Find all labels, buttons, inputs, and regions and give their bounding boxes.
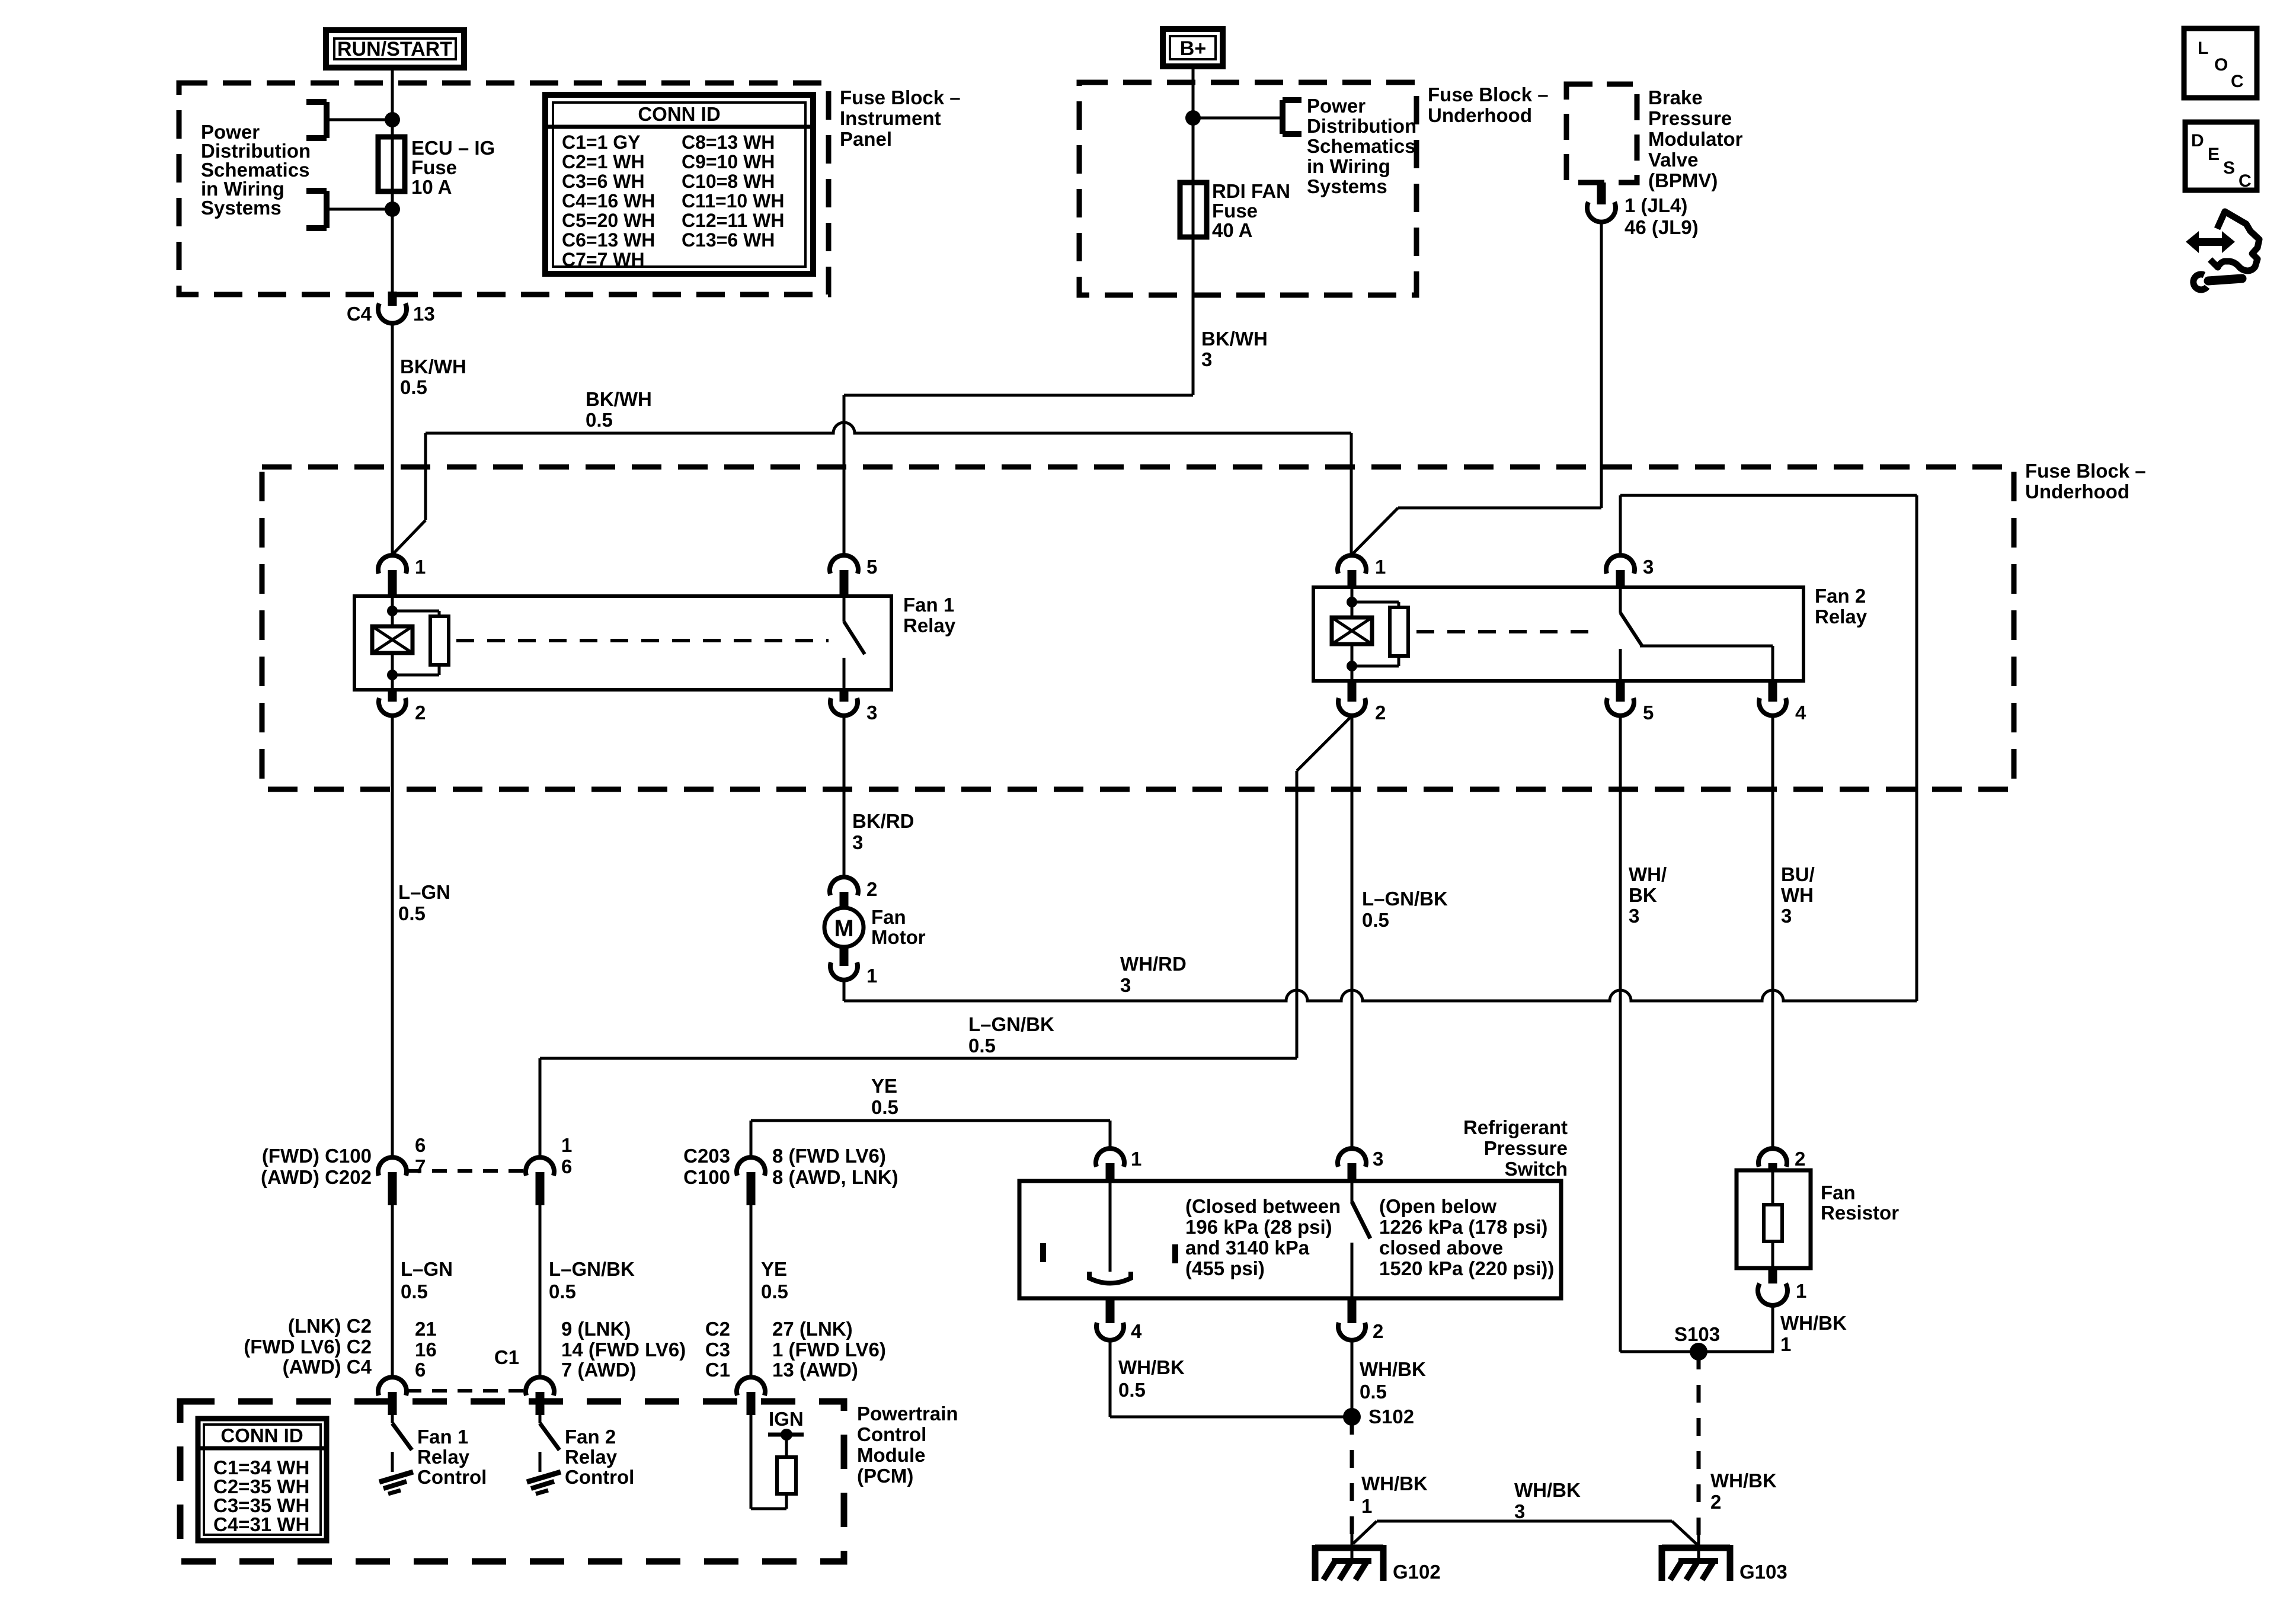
svg-text:2: 2 [1710, 1491, 1721, 1513]
relay actuation dashed link Fan1 [456, 639, 829, 642]
pressure switch low-side contact [1109, 1181, 1112, 1272]
svg-text:3: 3 [1781, 905, 1792, 927]
wire BPMV down to Fan 2 relay pin 1 [1600, 221, 1603, 508]
splice S103 [1690, 1343, 1707, 1361]
connector Fan2 pin 3 [1606, 555, 1635, 574]
connector Fan2 pin 1 [1338, 555, 1366, 574]
svg-text:196 kPa (28 psi): 196 kPa (28 psi) [1185, 1216, 1332, 1238]
svg-text:0.5: 0.5 [398, 902, 426, 924]
svg-text:3: 3 [1373, 1148, 1383, 1170]
relay suppression resistor Fan2 [1352, 601, 1399, 604]
svg-text:Relay: Relay [1815, 606, 1868, 628]
connector Fan1 pin 3 [840, 690, 849, 702]
svg-text:E: E [2208, 145, 2220, 164]
svg-text:C1: C1 [494, 1346, 519, 1368]
svg-text:BK/WH: BK/WH [400, 356, 466, 377]
fuse block - underhood dashed box (main) [262, 467, 2014, 789]
powertrain control module PCM dashed box [180, 1401, 844, 1561]
svg-text:Panel: Panel [840, 128, 892, 150]
svg-text:C6=13 WH: C6=13 WH [562, 229, 655, 251]
svg-text:C3=6 WH: C3=6 WH [562, 171, 645, 192]
svg-text:0.5: 0.5 [549, 1281, 576, 1302]
svg-text:Schematics: Schematics [1307, 135, 1415, 157]
svg-text:WH/: WH/ [1629, 863, 1667, 885]
svg-text:C11=10 WH: C11=10 WH [682, 190, 784, 212]
connector C100/C202 pins 6/7 [378, 1157, 407, 1176]
svg-text:Systems: Systems [201, 197, 282, 219]
svg-text:14 (FWD LV6): 14 (FWD LV6) [561, 1339, 686, 1361]
svg-text:1: 1 [866, 965, 877, 987]
svg-text:1: 1 [1780, 1333, 1791, 1355]
svg-text:BK/WH: BK/WH [1201, 328, 1268, 350]
wire RUN/START to ECU-IG fuse [391, 71, 394, 137]
svg-text:in Wiring: in Wiring [1307, 155, 1390, 177]
svg-text:Fuse: Fuse [1212, 200, 1258, 222]
wire S102 to G102 dashed WH/BK 1 [1350, 1417, 1354, 1535]
svg-text:C2=1 WH: C2=1 WH [562, 151, 645, 172]
svg-text:Brake: Brake [1648, 87, 1703, 108]
svg-text:0.5: 0.5 [968, 1035, 996, 1057]
svg-text:WH/BK: WH/BK [1361, 1473, 1428, 1494]
svg-text:3: 3 [866, 702, 877, 724]
svg-text:10 A: 10 A [411, 176, 452, 198]
power node B+ [1163, 29, 1223, 66]
svg-text:0.5: 0.5 [401, 1281, 428, 1302]
svg-text:Fuse Block –: Fuse Block – [840, 87, 961, 108]
svg-text:Relay: Relay [903, 614, 956, 636]
wire RDI FAN fuse down BK/WH 3 [1192, 237, 1195, 395]
svg-text:1 (JL4): 1 (JL4) [1625, 194, 1687, 216]
svg-text:(AWD) C202: (AWD) C202 [261, 1166, 372, 1188]
svg-text:Fuse: Fuse [411, 156, 457, 178]
svg-text:4: 4 [1795, 702, 1806, 724]
svg-text:S102: S102 [1368, 1406, 1414, 1427]
relay switch Fan1 [843, 596, 846, 622]
svg-text:Powertrain: Powertrain [857, 1403, 958, 1425]
connector tie dashed [407, 1169, 526, 1173]
connector BPMV pin 1 (JL4) / 46 (JL9) [1597, 183, 1606, 204]
svg-text:3: 3 [1514, 1500, 1525, 1522]
svg-text:Systems: Systems [1307, 175, 1387, 197]
svg-text:C13=6 WH: C13=6 WH [682, 229, 775, 251]
icon LOC box [2184, 28, 2257, 98]
wire BK/WH 0.5 down to Fan 1 relay pin 1 [391, 322, 394, 556]
svg-text:C1: C1 [705, 1359, 730, 1381]
svg-text:C3: C3 [705, 1339, 730, 1361]
ground G102 [1351, 1534, 1354, 1561]
svg-text:G103: G103 [1739, 1561, 1787, 1583]
svg-text:Power: Power [1307, 95, 1366, 117]
connector C4 pin 13 [388, 292, 397, 306]
svg-text:O: O [2214, 55, 2228, 75]
svg-text:CONN ID: CONN ID [638, 103, 720, 125]
svg-text:WH/BK: WH/BK [1780, 1312, 1847, 1334]
svg-text:7 (AWD): 7 (AWD) [561, 1359, 637, 1381]
svg-text:C4: C4 [347, 303, 372, 325]
svg-text:L–GN/BK: L–GN/BK [1362, 888, 1448, 910]
wire bracket to node A [327, 119, 392, 121]
fuse block - underhood dashed box (top) [1079, 82, 1416, 295]
connector pressure switch pin 4 [1106, 1298, 1115, 1323]
svg-text:0.5: 0.5 [400, 376, 427, 398]
wire pin4 WH/BK 0.5 to S102 [1109, 1342, 1112, 1417]
svg-text:(Open below: (Open below [1379, 1195, 1496, 1217]
svg-text:Control: Control [417, 1466, 487, 1488]
svg-text:1 (FWD LV6): 1 (FWD LV6) [772, 1339, 886, 1361]
svg-text:Underhood: Underhood [1428, 104, 1532, 126]
svg-text:L–GN/BK: L–GN/BK [968, 1013, 1054, 1035]
motor M1 Fan Motor [824, 908, 864, 947]
connector C203/C100 pin 8 [737, 1157, 765, 1176]
wire Fan2 pin2 down L-GN/BK 0.5 to pressure switch pin 3 [1351, 716, 1354, 1149]
relay coil Fan1 [391, 596, 394, 626]
svg-text:L–GN: L–GN [398, 881, 450, 903]
svg-text:13 (AWD): 13 (AWD) [772, 1359, 858, 1381]
connector PCM C2/C2/C4 pins 21/16/6 [378, 1377, 407, 1395]
svg-text:and 3140 kPa: and 3140 kPa [1185, 1237, 1310, 1259]
node B junction [385, 201, 400, 217]
svg-text:40 A: 40 A [1212, 219, 1252, 241]
off-page bracket upper left [324, 102, 330, 138]
svg-text:2: 2 [415, 702, 426, 724]
svg-text:C4=16 WH: C4=16 WH [562, 190, 655, 212]
svg-text:CONN ID: CONN ID [220, 1425, 303, 1446]
svg-text:C10=8 WH: C10=8 WH [682, 171, 775, 192]
svg-text:M: M [834, 916, 853, 942]
svg-text:BK/WH: BK/WH [586, 388, 652, 410]
power node RUN/START [326, 30, 464, 68]
svg-text:G102: G102 [1393, 1561, 1441, 1583]
relay actuation dashed link Fan2 [1416, 630, 1600, 633]
svg-text:Fan 1: Fan 1 [903, 594, 954, 616]
svg-text:0.5: 0.5 [871, 1096, 898, 1118]
svg-text:(LNK) C2: (LNK) C2 [288, 1315, 372, 1337]
connector Fan2 pin 2 [1348, 681, 1357, 702]
svg-text:13: 13 [413, 303, 435, 325]
svg-text:3: 3 [1120, 974, 1131, 996]
wire YE to switch pin 1 [1109, 1121, 1112, 1149]
wire fuse to connector C4 [391, 191, 394, 292]
svg-text:Fuse Block –: Fuse Block – [1428, 84, 1549, 105]
wire YE 0.5 vertical [750, 1205, 753, 1378]
svg-text:Refrigerant: Refrigerant [1463, 1116, 1568, 1138]
svg-text:8 (AWD, LNK): 8 (AWD, LNK) [772, 1166, 898, 1188]
svg-text:L: L [2198, 39, 2208, 58]
svg-text:2: 2 [1375, 702, 1386, 724]
svg-text:3: 3 [1629, 905, 1639, 927]
svg-text:4: 4 [1131, 1320, 1142, 1342]
fuse F2 RDI FAN 40 A [1180, 183, 1207, 237]
fuse block - instrument panel dashed box [179, 83, 829, 295]
wire bracket to node B [327, 208, 392, 211]
svg-text:RUN/START: RUN/START [337, 38, 452, 60]
svg-text:C12=11 WH: C12=11 WH [682, 210, 784, 231]
svg-text:Fan: Fan [1821, 1182, 1856, 1204]
node C junction [1185, 110, 1201, 126]
wire WH/BK 1 resistor to S103 [1771, 1304, 1774, 1352]
relay switch Fan2 [1619, 587, 1622, 613]
svg-text:WH/BK: WH/BK [1514, 1479, 1581, 1501]
svg-text:6: 6 [415, 1134, 426, 1156]
svg-text:(AWD) C4: (AWD) C4 [283, 1356, 372, 1378]
svg-text:5: 5 [866, 556, 877, 578]
splice S102 [1343, 1408, 1361, 1426]
svg-text:3: 3 [1643, 556, 1654, 578]
svg-text:1: 1 [415, 556, 426, 578]
svg-text:WH/BK: WH/BK [1360, 1358, 1426, 1380]
connector Fan2 pin 4 [1769, 681, 1777, 702]
svg-text:WH/BK: WH/BK [1118, 1356, 1185, 1378]
svg-text:C9=10 WH: C9=10 WH [682, 151, 775, 172]
svg-text:WH: WH [1781, 884, 1814, 906]
svg-text:7: 7 [415, 1156, 426, 1177]
off-page bracket right [1280, 100, 1285, 134]
svg-text:21: 21 [415, 1318, 437, 1340]
svg-text:C4=31 WH: C4=31 WH [213, 1513, 309, 1535]
svg-text:Fan 2: Fan 2 [1815, 585, 1866, 607]
svg-text:6: 6 [415, 1359, 426, 1381]
brake pressure modulator valve BPMV dashed box [1566, 84, 1637, 183]
svg-text:Relay: Relay [417, 1446, 470, 1468]
svg-text:C8=13 WH: C8=13 WH [682, 132, 775, 153]
wire S103 to G103 dashed WH/BK 2 [1697, 1352, 1701, 1535]
svg-text:1: 1 [561, 1134, 572, 1156]
svg-text:0.5: 0.5 [586, 409, 613, 431]
wire S103 tie bar [1620, 1350, 1774, 1353]
svg-text:2: 2 [1373, 1320, 1383, 1342]
svg-text:1520 kPa (220 psi)): 1520 kPa (220 psi)) [1379, 1257, 1554, 1279]
wire node C to bracket [1193, 117, 1283, 120]
svg-text:D: D [2191, 131, 2204, 151]
svg-text:Fan 2: Fan 2 [565, 1426, 616, 1448]
svg-text:(FWD) C100: (FWD) C100 [262, 1145, 372, 1167]
refrigerant pressure switch body [1019, 1181, 1561, 1298]
connector pressure switch pin 2 [1348, 1298, 1357, 1323]
svg-text:BK: BK [1629, 884, 1657, 906]
svg-text:16: 16 [415, 1339, 437, 1361]
svg-text:Underhood: Underhood [2025, 481, 2129, 502]
svg-text:C7=7 WH: C7=7 WH [562, 249, 645, 270]
connector Fan1 pin 2 [388, 690, 397, 702]
node A junction [385, 112, 400, 127]
connector pressure switch pin 3 [1338, 1148, 1366, 1167]
connector Fan1 pin 1 [378, 555, 407, 574]
connector PCM C2/C3/C1 pins 27/1/13 [737, 1377, 765, 1395]
svg-text:8 (FWD LV6): 8 (FWD LV6) [772, 1145, 886, 1167]
relay switch output to pin 4 [1640, 645, 1773, 648]
svg-text:(455 psi): (455 psi) [1185, 1257, 1265, 1279]
relay K1 Fan 1 Relay body [354, 596, 891, 690]
svg-text:C203: C203 [683, 1145, 730, 1167]
relay coil Fan2 [1351, 587, 1354, 617]
wire Fan2 pin5 down WH/BK 3 to S103 [1619, 716, 1622, 1352]
svg-text:Instrument: Instrument [840, 107, 941, 129]
wire L-GN 0.5 to PCM connector [391, 1205, 394, 1378]
svg-text:closed above: closed above [1379, 1237, 1503, 1259]
CONN ID table (instrument panel) [545, 95, 813, 274]
svg-text:YE: YE [761, 1258, 787, 1280]
wire L-GN/BK 0.5 to PCM connector [539, 1205, 542, 1378]
svg-text:(PCM): (PCM) [857, 1465, 913, 1487]
svg-text:27 (LNK): 27 (LNK) [772, 1318, 853, 1340]
svg-text:6: 6 [561, 1156, 572, 1177]
svg-text:ECU – IG: ECU – IG [411, 137, 495, 159]
connector fan resistor pin 1 [1769, 1268, 1777, 1283]
svg-text:Valve: Valve [1648, 149, 1698, 171]
svg-text:1: 1 [1131, 1148, 1141, 1170]
svg-text:Module: Module [857, 1444, 925, 1466]
svg-text:WH/RD: WH/RD [1120, 953, 1187, 975]
icon DESC box [2185, 122, 2257, 190]
svg-text:C2: C2 [705, 1318, 730, 1340]
svg-text:3: 3 [1201, 348, 1212, 370]
connector PCM C1 pins 9/14/7 [526, 1377, 554, 1395]
svg-text:B+: B+ [1180, 37, 1206, 60]
svg-text:0.5: 0.5 [761, 1281, 788, 1302]
svg-text:YE: YE [871, 1075, 897, 1097]
svg-text:S103: S103 [1674, 1323, 1720, 1345]
svg-text:(FWD LV6) C2: (FWD LV6) C2 [244, 1336, 372, 1358]
ground G103 [1697, 1534, 1700, 1561]
icon service glyph arrow [2186, 231, 2235, 253]
ground fan2 control [539, 1452, 542, 1472]
svg-text:0.5: 0.5 [1362, 909, 1389, 931]
wire B+ into fuse block [1192, 66, 1195, 183]
wire BK/WH 0.5 horizontal to Fan 2 relay pin 1 [426, 422, 1351, 433]
switch Fan 2 Relay Control [539, 1415, 542, 1423]
wire WH/BK 3 ground bridge [1377, 1520, 1672, 1523]
svg-text:Pressure: Pressure [1484, 1137, 1568, 1159]
svg-text:Fan: Fan [871, 906, 906, 928]
svg-text:Resistor: Resistor [1821, 1202, 1899, 1224]
svg-text:Control: Control [565, 1466, 634, 1488]
svg-text:Modulator: Modulator [1648, 128, 1743, 150]
svg-text:WH/BK: WH/BK [1710, 1470, 1777, 1491]
svg-text:(Closed between: (Closed between [1185, 1195, 1341, 1217]
svg-text:0.5: 0.5 [1360, 1381, 1387, 1403]
connector Fan Motor pin 1 [840, 947, 849, 966]
wire Fan1 pin2 down L-GN 0.5 [391, 716, 394, 1158]
icon service glyph outline [2210, 212, 2259, 271]
resistor R1 Fan Resistor [1737, 1170, 1811, 1268]
svg-text:C1=1 GY: C1=1 GY [562, 132, 641, 153]
svg-text:9 (LNK): 9 (LNK) [561, 1318, 631, 1340]
svg-text:Pressure: Pressure [1648, 107, 1732, 129]
ground fan1 control [391, 1452, 394, 1472]
svg-text:L–GN/BK: L–GN/BK [549, 1258, 635, 1280]
svg-text:(BPMV): (BPMV) [1648, 169, 1718, 191]
svg-text:5: 5 [1643, 702, 1654, 724]
svg-text:Motor: Motor [871, 926, 926, 948]
connector pressure switch pin 1 [1096, 1148, 1124, 1167]
svg-text:1: 1 [1796, 1280, 1806, 1302]
fuse F1 ECU - IG 10 A [378, 137, 405, 191]
svg-text:C5=20 WH: C5=20 WH [562, 210, 655, 231]
switch Fan 1 Relay Control [391, 1415, 394, 1423]
PCM IGN pull-up [750, 1415, 753, 1509]
connector Fan1 pin 5 [830, 555, 858, 574]
wire YE 0.5 horizontal to pressure switch pin 1 [751, 1119, 1110, 1122]
wire Fan2 pin4 down BU/WH 3 to fan resistor [1771, 716, 1774, 1149]
pressure switch high-side contact [1351, 1181, 1354, 1202]
connector Fan Motor pin 2 [830, 877, 858, 895]
CONN ID table (PCM) [198, 1419, 327, 1541]
svg-text:1226 kPa (178 psi): 1226 kPa (178 psi) [1379, 1216, 1547, 1238]
connector fan resistor pin 2 [1758, 1148, 1787, 1167]
icon service glyph wrench [2193, 274, 2207, 290]
svg-text:Switch: Switch [1505, 1158, 1568, 1180]
wire L-GN/BK branch upper connector pins 1/6 [526, 1157, 554, 1176]
svg-text:0.5: 0.5 [1118, 1379, 1146, 1401]
svg-text:Distribution: Distribution [1307, 115, 1416, 137]
svg-text:RDI FAN: RDI FAN [1212, 180, 1290, 202]
svg-text:L–GN: L–GN [401, 1258, 453, 1280]
svg-text:Control: Control [857, 1423, 926, 1445]
svg-text:BU/: BU/ [1781, 863, 1815, 885]
svg-text:IGN: IGN [769, 1408, 804, 1430]
svg-text:BK/RD: BK/RD [852, 810, 914, 832]
svg-text:3: 3 [852, 831, 863, 853]
svg-text:Fan 1: Fan 1 [417, 1426, 468, 1448]
off-page bracket lower left [324, 191, 330, 228]
svg-text:C: C [2231, 72, 2244, 91]
svg-text:C100: C100 [683, 1166, 730, 1188]
wire Fan1 pin3 down BK/RD 3 [843, 716, 846, 876]
wire WH/RD 3 from motor to Fan2 pin3 net [843, 980, 846, 1001]
svg-text:Relay: Relay [565, 1446, 618, 1468]
wire Fan2 pin2 diagonal branch to PCM [1297, 718, 1350, 771]
wire pin2 WH/BK 0.5 to S102 [1351, 1342, 1354, 1417]
svg-text:C: C [2239, 171, 2252, 191]
svg-text:S: S [2223, 158, 2235, 178]
relay suppression resistor Fan1 [392, 610, 439, 613]
svg-text:46 (JL9): 46 (JL9) [1625, 216, 1699, 238]
svg-text:1: 1 [1361, 1495, 1372, 1517]
connector Fan2 pin 5 [1616, 681, 1625, 702]
svg-text:1: 1 [1375, 556, 1386, 578]
svg-text:2: 2 [866, 878, 877, 900]
connector tie dashed lower [407, 1389, 526, 1393]
wire corner to Fan1 pin 5 feed [844, 394, 1193, 397]
svg-text:Fuse Block –: Fuse Block – [2025, 460, 2146, 482]
svg-text:2: 2 [1795, 1148, 1805, 1170]
relay K2 Fan 2 Relay body [1313, 587, 1803, 681]
